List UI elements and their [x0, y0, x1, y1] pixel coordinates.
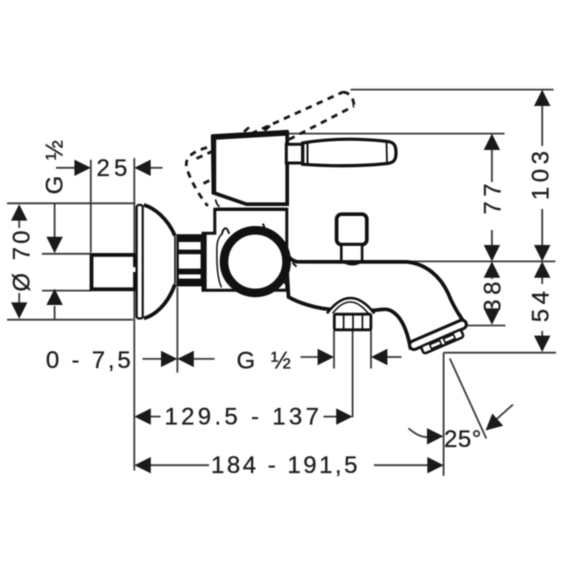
- escutcheon back plate: [137, 205, 143, 319]
- arrow 54 bottom: [534, 336, 550, 352]
- ext line top 103: [351, 89, 554, 91]
- text 25deg: [444, 426, 482, 453]
- svg-text:0 - 7,5: 0 - 7,5: [46, 347, 134, 374]
- spout: [286, 250, 463, 347]
- svg-text:184 - 191,5: 184 - 191,5: [211, 452, 360, 479]
- ext line spout axis: [407, 260, 555, 262]
- arrow angle at vertical: [427, 428, 443, 444]
- dim line G12 left vertical: [54, 203, 56, 319]
- lever grip: [303, 139, 396, 165]
- screw ticks: [263, 224, 297, 286]
- ext line spout tip vertical: [443, 353, 445, 476]
- text G 1/2 hose: [237, 348, 296, 375]
- arrow 38 bottom: [484, 308, 500, 324]
- aerator tip: [408, 319, 471, 358]
- dim line 77 vertical: [491, 148, 493, 249]
- ext line nipple top: [42, 253, 91, 255]
- arrow 184 left: [134, 457, 150, 473]
- bowtie 0-7.5: [161, 351, 194, 367]
- handle body: [211, 130, 288, 204]
- ext line wall plane: [133, 158, 135, 471]
- text 54 rotated: [528, 287, 555, 323]
- arrow 77 bottom hourglass: [484, 245, 500, 278]
- ext line spout outlet 54: [444, 352, 556, 354]
- ext line escutcheon rim: [176, 287, 178, 373]
- ext line hose left: [333, 331, 335, 369]
- ext line 38 bottom: [455, 325, 505, 327]
- dim line 0-7.5: [143, 358, 215, 360]
- hose boss dome: [327, 298, 374, 313]
- ext line flange bottom: [7, 319, 133, 321]
- dim line 25 top: [56, 167, 163, 169]
- hose centerline: [352, 331, 354, 417]
- escutcheon bell: [144, 205, 175, 319]
- svg-text:25°: 25°: [444, 426, 482, 453]
- arrow D70 down: [11, 302, 27, 318]
- text 77 rotated: [480, 179, 507, 215]
- body casting seams: [217, 228, 229, 287]
- arrow 25 right: [134, 160, 150, 176]
- wall nipple: [92, 255, 137, 289]
- arrow D70 up: [11, 204, 27, 220]
- svg-text:25: 25: [97, 155, 132, 182]
- svg-text:G ½: G ½: [237, 348, 296, 375]
- diverter knob: [337, 214, 367, 264]
- arrow 129.5 right: [336, 408, 352, 424]
- arrow 25 left: [74, 160, 90, 176]
- arrow 77 top: [484, 134, 500, 150]
- svg-text:129.5 - 137: 129.5 - 137: [165, 404, 323, 431]
- cartridge circle: [224, 230, 287, 293]
- angle leader arc left: [409, 428, 429, 437]
- arrow G12 nipple top: [46, 237, 62, 253]
- arrow 184 right: [427, 457, 443, 473]
- svg-text:G ½: G ½: [42, 136, 69, 195]
- dim line 129.5-137: [149, 416, 338, 418]
- adjustment ribs: [178, 235, 202, 285]
- arrow G12 hose right: [371, 349, 387, 365]
- angle line 25deg: [450, 359, 487, 439]
- ext line flange top: [7, 202, 135, 204]
- text D 70 rotated: [9, 228, 36, 292]
- lever stem: [286, 144, 302, 163]
- dim line 54 vertical: [541, 276, 543, 339]
- text 25: [97, 155, 132, 182]
- text 129.5 - 137: [165, 404, 323, 431]
- text 38 rotated: [480, 277, 507, 313]
- text 0 - 7,5: [46, 347, 134, 374]
- text 103 rotated: [528, 147, 555, 201]
- ext line nipple tip: [90, 160, 92, 253]
- dim line 38 vertical: [491, 276, 493, 323]
- svg-text:38: 38: [480, 277, 507, 313]
- angle leader right: [495, 405, 514, 422]
- dashed raised lever: [186, 92, 354, 206]
- svg-text:Ø 70: Ø 70: [9, 228, 36, 292]
- arrow G12 nipple bottom: [46, 289, 62, 305]
- hose connector G12: [334, 314, 371, 330]
- svg-text:77: 77: [480, 179, 507, 215]
- ext line nipple bottom: [42, 290, 91, 292]
- lever pivot marks: [244, 126, 270, 132]
- text G 1/2 left rotated: [42, 136, 69, 195]
- dim line 184-191.5: [149, 464, 429, 466]
- valve body block: [203, 200, 287, 291]
- arrow G12 hose left: [318, 349, 334, 365]
- arrow 103 bottom hourglass: [534, 245, 550, 278]
- dim line D70 vertical: [18, 206, 20, 317]
- ext line top 77: [288, 133, 505, 135]
- svg-text:103: 103: [528, 147, 555, 201]
- svg-text:54: 54: [528, 287, 555, 323]
- arrow 103 top: [534, 90, 550, 106]
- arrow angle vertex right: [486, 414, 504, 431]
- text 184 - 191,5: [211, 452, 360, 479]
- arrow 129.5 left: [134, 408, 150, 424]
- dim line 103 vertical: [541, 104, 543, 249]
- dim line G12 hose: [301, 356, 402, 358]
- ext line hose right: [370, 331, 372, 369]
